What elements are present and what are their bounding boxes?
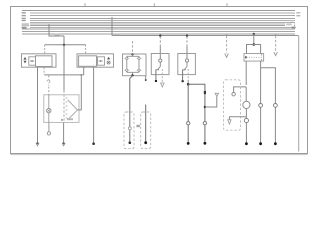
wire: horizontal link y=75 xyxy=(44,74,84,76)
connector chevron xyxy=(68,100,78,120)
wire: box1 pin down to ground xyxy=(37,67,39,143)
relay U1 contact arrows xyxy=(23,57,26,60)
lamp box pin mark xyxy=(61,119,62,120)
jog label xyxy=(55,34,60,36)
branch left to terminal in box B xyxy=(229,117,246,120)
wire: F1 right output down xyxy=(260,61,262,144)
header tick marks on frame xyxy=(85,3,227,6)
wire: box1 pin3 dashed stub xyxy=(43,67,45,74)
wire: lamp exit up to link xyxy=(78,75,82,110)
node A: drop from bus line 8 at x=49 xyxy=(48,25,49,27)
wire: drop to switch S1 xyxy=(159,35,161,37)
label between connectors xyxy=(136,125,140,127)
wire: dashed stub to box1 xyxy=(44,45,46,54)
wire: S2 dashed pin down xyxy=(187,69,189,80)
wire: lamp feed inside box xyxy=(48,95,50,109)
wire: lamp ground stub xyxy=(48,122,50,131)
bus line 9 xyxy=(30,27,295,29)
node D: drop from bus line 12 at x=253.8 xyxy=(253,33,255,35)
wire: S1 pin down to splice xyxy=(155,70,157,80)
diode D1 xyxy=(204,91,206,95)
wire: box2 pin2 long down xyxy=(93,67,95,143)
junction at S2 output xyxy=(187,83,190,86)
wire: branch right from S2 xyxy=(188,84,205,90)
ground terminal ring xyxy=(47,132,50,135)
bracket over fuse F1 xyxy=(247,45,261,54)
relay U1 coil box xyxy=(29,57,36,65)
bus line 5 xyxy=(30,20,295,22)
pin label xyxy=(47,80,50,86)
wire: S2 pin down to splice xyxy=(182,70,184,80)
wire: T branch y=44.8 xyxy=(45,44,86,46)
wire: F1 left output down xyxy=(245,61,247,85)
relay U2 coil box xyxy=(98,57,105,65)
wire: bulb to box bottom xyxy=(48,113,50,123)
label near wire xyxy=(115,34,120,36)
wire: far right long drop xyxy=(298,36,300,152)
wire: below diode xyxy=(204,94,206,143)
bus line 6 xyxy=(30,22,295,24)
wire: dashed drop to relay K3 xyxy=(132,41,134,54)
dashed drop with arrow (to other page) xyxy=(226,34,228,36)
relay U1 inner body xyxy=(36,56,53,67)
switch S1 contact xyxy=(159,59,162,62)
lamp box label xyxy=(67,118,73,120)
bus line 11 xyxy=(22,31,295,33)
lamp assembly box xyxy=(44,95,79,123)
wire: branch right then down xyxy=(261,68,276,144)
bus line 10 xyxy=(22,28,295,30)
big inline connector C1 xyxy=(243,101,250,108)
connector pass-through dashed box R xyxy=(141,112,151,149)
K3 second pin stub xyxy=(145,76,147,80)
wire: x=112 down to low bus xyxy=(111,19,113,36)
relay U2 inner body xyxy=(79,56,97,67)
relay U2 contact symbol xyxy=(107,57,110,60)
bus line 7 xyxy=(30,23,295,25)
wire below C1 xyxy=(245,109,247,144)
wire: dashed stub to box2 xyxy=(85,45,87,54)
wire: down to big connector xyxy=(245,87,247,101)
wire: S1 dashed pin to ground terminal xyxy=(161,69,163,83)
left margin wire labels xyxy=(22,12,29,29)
dashed drop with arrow right xyxy=(275,34,277,36)
relay U1 (left component) outer box xyxy=(22,54,57,67)
wire: into dashed box R xyxy=(145,105,147,143)
lamp connector pins xyxy=(66,98,68,118)
wire: K3 output down xyxy=(130,76,133,143)
wire: x=49 down then jog to x=64 xyxy=(49,26,64,37)
switch S2 contact xyxy=(185,59,188,62)
wire: S2 main down with connector xyxy=(187,84,189,143)
relay K3 internals xyxy=(131,53,133,55)
wire: x=64 main drop xyxy=(63,36,65,91)
junction at (64,44.8) xyxy=(63,44,65,46)
flag terminal branch xyxy=(204,106,206,108)
lamp bulb xyxy=(47,108,51,112)
ground arrow at x=63.6 xyxy=(62,143,65,146)
connector pass-through dashed box L xyxy=(124,112,134,149)
ground arrow at x=37.5 xyxy=(36,143,39,146)
bus line 4 xyxy=(30,18,295,20)
bus line 8 xyxy=(30,25,295,27)
bus line 13 xyxy=(112,35,299,37)
wire: box2 pin to link xyxy=(83,67,85,75)
bus line 3 xyxy=(30,15,295,17)
bus line 2 xyxy=(30,12,295,14)
relay K3 box xyxy=(123,54,147,76)
node C: drop from bus line 4 at x=112 xyxy=(111,17,113,18)
right margin wire labels xyxy=(286,12,300,28)
branch left into connector box xyxy=(234,87,247,93)
wire: drop to switch S2 xyxy=(186,35,188,37)
relay U2 (second component) outer box xyxy=(77,54,114,67)
bus line 12 xyxy=(22,33,295,35)
border frame xyxy=(11,7,308,154)
switch S1 box xyxy=(151,54,169,75)
switch S2 box xyxy=(178,54,196,75)
dashed junction box xyxy=(224,80,241,130)
wire: dashed stub into lamp xyxy=(48,75,50,94)
fuse F1 box xyxy=(244,54,264,62)
bus line 1 xyxy=(22,10,295,12)
page background xyxy=(0,0,318,159)
